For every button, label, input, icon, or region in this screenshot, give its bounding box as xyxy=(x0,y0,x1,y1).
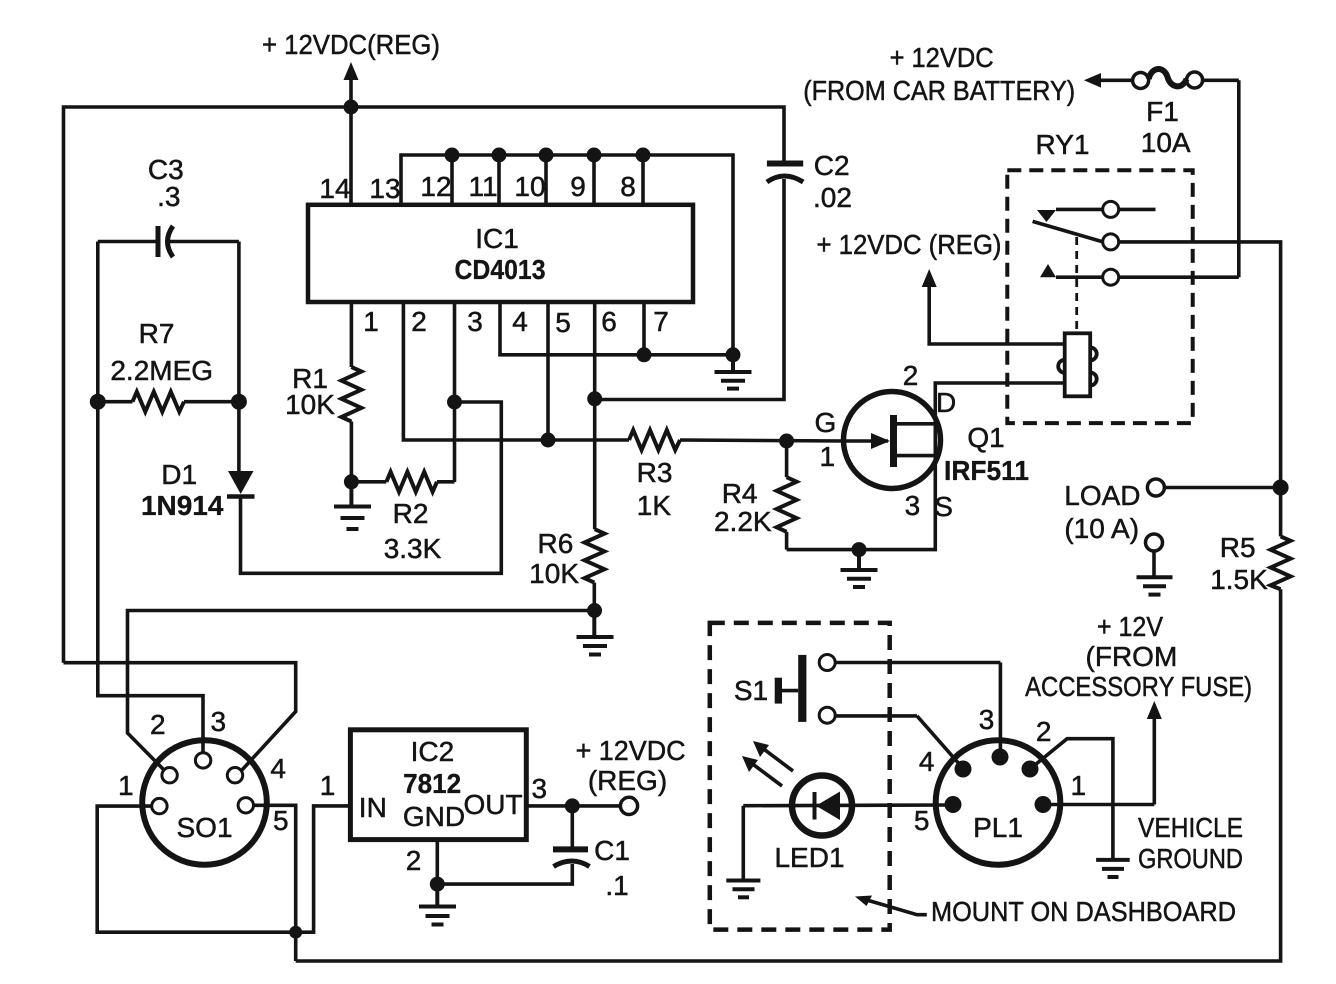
svg-text:D: D xyxy=(936,387,956,418)
svg-text:8: 8 xyxy=(620,171,636,202)
svg-text:1: 1 xyxy=(118,770,134,801)
svg-text:LED1: LED1 xyxy=(774,842,844,873)
svg-text:MOUNT ON DASHBOARD: MOUNT ON DASHBOARD xyxy=(931,896,1236,927)
svg-text:SO1: SO1 xyxy=(176,812,232,843)
svg-text:Q1: Q1 xyxy=(967,422,1004,453)
svg-text:9: 9 xyxy=(570,171,586,202)
svg-text:.02: .02 xyxy=(813,182,852,213)
svg-text:11: 11 xyxy=(468,171,497,202)
svg-text:3.3K: 3.3K xyxy=(384,533,442,564)
svg-text:7812: 7812 xyxy=(403,768,461,799)
svg-text:3: 3 xyxy=(467,306,483,337)
svg-text:S: S xyxy=(934,491,953,522)
svg-text:13: 13 xyxy=(369,173,400,204)
svg-text:R2: R2 xyxy=(393,498,429,529)
svg-text:1: 1 xyxy=(363,306,379,337)
svg-text:IC1: IC1 xyxy=(475,223,519,254)
svg-text:10A: 10A xyxy=(1141,127,1191,158)
svg-text:+ 12VDC(REG): + 12VDC(REG) xyxy=(262,29,440,60)
svg-text:3: 3 xyxy=(905,490,921,521)
svg-text:+ 12VDC: + 12VDC xyxy=(576,735,686,766)
svg-text:1K: 1K xyxy=(637,490,672,521)
svg-text:2: 2 xyxy=(1036,716,1052,747)
svg-text:R6: R6 xyxy=(538,528,574,559)
svg-text:.1: .1 xyxy=(605,870,628,901)
svg-text:5: 5 xyxy=(914,805,930,836)
svg-text:5: 5 xyxy=(273,805,289,836)
svg-text:4: 4 xyxy=(919,746,935,777)
svg-text:3: 3 xyxy=(211,706,227,737)
svg-text:2: 2 xyxy=(411,306,427,337)
svg-text:1: 1 xyxy=(320,770,336,801)
svg-text:2: 2 xyxy=(903,360,919,391)
svg-text:GND: GND xyxy=(403,801,465,832)
svg-text:OUT: OUT xyxy=(463,789,522,820)
svg-text:3: 3 xyxy=(532,773,548,804)
svg-text:R5: R5 xyxy=(1220,532,1256,563)
svg-text:G: G xyxy=(815,407,837,438)
svg-text:RY1: RY1 xyxy=(1036,129,1090,160)
svg-text:(REG): (REG) xyxy=(588,765,667,796)
svg-text:+ 12VDC: + 12VDC xyxy=(890,42,994,73)
svg-text:5: 5 xyxy=(555,307,571,338)
svg-text:+ 12VDC (REG): + 12VDC (REG) xyxy=(817,229,1002,260)
svg-text:2: 2 xyxy=(406,845,422,876)
svg-text:R7: R7 xyxy=(139,318,175,349)
svg-text:12: 12 xyxy=(420,171,451,202)
svg-text:3: 3 xyxy=(979,704,995,735)
svg-text:2.2MEG: 2.2MEG xyxy=(110,355,213,386)
svg-text:1: 1 xyxy=(820,441,836,472)
svg-text:10K: 10K xyxy=(529,558,579,589)
svg-text:2.2K: 2.2K xyxy=(714,506,772,537)
svg-text:1N914: 1N914 xyxy=(141,490,224,521)
svg-text:GROUND: GROUND xyxy=(1138,843,1243,874)
svg-text:10: 10 xyxy=(514,171,545,202)
svg-text:IRF511: IRF511 xyxy=(944,455,1029,486)
svg-text:IN: IN xyxy=(359,792,387,823)
svg-text:4: 4 xyxy=(512,306,528,337)
svg-text:PL1: PL1 xyxy=(973,812,1023,843)
svg-text:4: 4 xyxy=(270,753,286,784)
svg-text:VEHICLE: VEHICLE xyxy=(1138,812,1243,843)
svg-text:.3: .3 xyxy=(157,181,180,212)
svg-text:F1: F1 xyxy=(1146,96,1179,127)
svg-text:S1: S1 xyxy=(734,675,768,706)
svg-text:(FROM: (FROM xyxy=(1086,641,1178,672)
svg-text:10K: 10K xyxy=(285,389,335,420)
svg-text:R3: R3 xyxy=(637,457,673,488)
svg-text:7: 7 xyxy=(653,306,669,337)
svg-text:2: 2 xyxy=(150,709,166,740)
svg-text:R4: R4 xyxy=(722,478,758,509)
svg-text:1.5K: 1.5K xyxy=(1210,564,1268,595)
svg-text:CD4013: CD4013 xyxy=(455,254,546,285)
svg-text:LOAD: LOAD xyxy=(1064,480,1140,511)
svg-text:ACCESSORY FUSE): ACCESSORY FUSE) xyxy=(1025,671,1252,702)
svg-text:D1: D1 xyxy=(161,459,197,490)
svg-text:C2: C2 xyxy=(814,150,850,181)
svg-text:14: 14 xyxy=(319,173,350,204)
svg-text:(10 A): (10 A) xyxy=(1064,513,1139,544)
svg-text:C1: C1 xyxy=(594,835,630,866)
svg-text:(FROM CAR BATTERY): (FROM CAR BATTERY) xyxy=(803,75,1075,106)
svg-text:1: 1 xyxy=(1071,770,1087,801)
svg-text:IC2: IC2 xyxy=(411,736,455,767)
svg-text:6: 6 xyxy=(601,306,617,337)
svg-text:+ 12V: + 12V xyxy=(1097,611,1163,642)
